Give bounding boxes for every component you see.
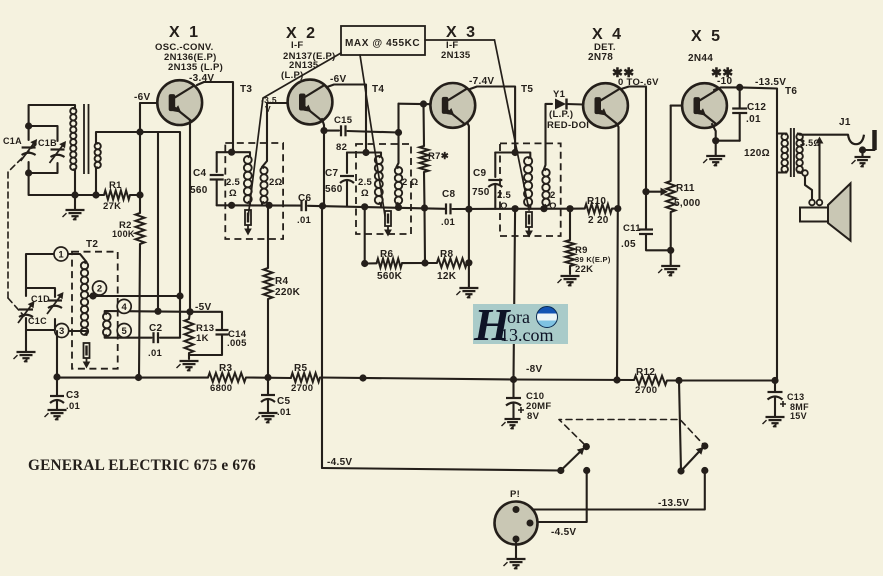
wire C7 top leg (346, 153, 348, 174)
pin 4 of T2 (117, 299, 131, 313)
svg-text:15V: 15V (790, 411, 807, 421)
svg-text:C3: C3 (66, 390, 80, 401)
svg-text:X 5: X 5 (691, 28, 723, 45)
transformer T2 secondary coil (103, 313, 111, 336)
wire R13 bottom (188, 353, 190, 359)
gang dashed line lower (8, 298, 24, 316)
wire X2 collector to T4 (327, 85, 366, 153)
switch gang dashed link (559, 420, 703, 445)
svg-text:2700: 2700 (635, 385, 657, 396)
svg-text:R1: R1 (109, 180, 122, 191)
node -5V junction (186, 308, 193, 315)
capacitor C11 (639, 228, 653, 230)
wire speaker lead right (818, 139, 820, 200)
svg-text:(L.P): (L.P) (281, 70, 304, 81)
svg-text:2N44: 2N44 (688, 53, 713, 64)
resistor R3 (208, 373, 246, 382)
variable capacitor C1A (21, 139, 37, 161)
svg-text:220K: 220K (275, 287, 301, 298)
wire C11 lower leg (646, 234, 671, 250)
svg-text:V: V (265, 104, 271, 114)
wire X3 base (399, 103, 432, 106)
wire C4 left leg (216, 152, 218, 172)
svg-text:Ω: Ω (549, 201, 557, 212)
svg-text:ora: ora (507, 307, 530, 327)
svg-text:X 1: X 1 (169, 24, 201, 41)
svg-text:2N78: 2N78 (588, 52, 613, 63)
wire R4 bottom to bus (267, 299, 269, 378)
wire T2 tap (88, 295, 180, 297)
svg-text:39 K(E.P): 39 K(E.P) (575, 255, 611, 264)
wire C1C box bottom (26, 318, 55, 330)
transformer T4 shield dashed box (356, 144, 411, 234)
junction X4 collector R10 (614, 205, 621, 212)
wire bus C10 to R12 (514, 378, 635, 381)
svg-text:.01: .01 (746, 114, 761, 125)
junction T2 tap (89, 292, 96, 299)
svg-text:-6V: -6V (330, 74, 346, 85)
svg-text:.01: .01 (66, 401, 81, 412)
svg-text:C4: C4 (193, 168, 207, 179)
junction X3 emitter rail (465, 206, 472, 213)
ground below C1C (14, 352, 36, 362)
transformer T6 primary coil (781, 134, 788, 173)
wire X1 emitter down (189, 120, 191, 312)
svg-text:R8: R8 (440, 249, 454, 260)
svg-text:R11: R11 (676, 183, 695, 194)
svg-text:1K: 1K (196, 333, 209, 344)
transformer T5 secondary coil (542, 169, 549, 206)
capacitor C3 (50, 395, 64, 397)
svg-text:2: 2 (97, 283, 102, 294)
switch S1 throw top (583, 443, 590, 450)
junction J1 ground (859, 146, 866, 153)
capacitor C10 electrolytic (506, 397, 521, 399)
junction C13 bus (771, 377, 778, 384)
svg-text:R7✱: R7✱ (428, 151, 450, 162)
ground below R9 (558, 276, 580, 286)
wire pin3 to bus (56, 331, 58, 377)
svg-text:R4: R4 (275, 276, 289, 287)
svg-text:X 3: X 3 (446, 24, 478, 41)
resistor R7 (420, 146, 429, 172)
junction X4 collector bus (613, 376, 620, 383)
ground below C13 (763, 417, 785, 427)
wire AVC rail C8 to R10 (453, 208, 571, 210)
svg-text:2700: 2700 (291, 383, 313, 394)
pin 2 of T2 (93, 281, 107, 295)
svg-text:(L.P.): (L.P.) (549, 109, 573, 120)
junction X3 collector T5 (511, 149, 518, 156)
wire R4 top (267, 205, 269, 268)
arrow switch S2 arm (696, 447, 704, 455)
svg-text:2.5: 2.5 (226, 177, 241, 188)
wire T4 secondary top (397, 104, 399, 167)
svg-text:1: 1 (58, 249, 64, 260)
pin 1 of T2 (54, 247, 68, 261)
junction R6 left (361, 260, 368, 267)
junction R6 R8 (421, 259, 428, 266)
wire R7 bottom leg (423, 172, 426, 208)
speaker cone (828, 183, 851, 240)
capacitor C9 (488, 179, 502, 181)
svg-text:-10: -10 (717, 76, 732, 87)
ground below R13 (177, 361, 199, 371)
wire X5 collector up (714, 87, 740, 90)
wire P1 bottom pin to ground (515, 543, 517, 559)
wire C7 bottom leg (346, 181, 348, 206)
capacitor C7 (340, 175, 354, 177)
svg-text:C1A: C1A (3, 136, 22, 146)
svg-text:C5: C5 (277, 396, 291, 407)
svg-text:R10: R10 (587, 196, 606, 207)
svg-text:T5: T5 (521, 84, 533, 95)
wire C13 stem (774, 381, 776, 392)
capacitor C15 (340, 125, 342, 136)
wire R10 right (612, 208, 618, 210)
svg-text:C15: C15 (334, 115, 353, 126)
ground at J1 (852, 157, 871, 167)
variable capacitor C1C (18, 301, 35, 323)
transistor X5 (682, 83, 727, 128)
svg-text:-6V: -6V (134, 92, 150, 103)
wire T1 secondary bottom (95, 168, 97, 195)
svg-text:C1C: C1C (28, 316, 47, 326)
junction R7 base (420, 100, 427, 107)
wire R11 top leg (670, 106, 672, 181)
ground below R11 (658, 266, 680, 276)
switch S2 pole (677, 467, 684, 474)
svg-text:2: 2 (550, 190, 556, 201)
wire X4 node to bus (616, 209, 619, 380)
svg-text:560: 560 (190, 185, 208, 196)
wire X2 emitter down (322, 119, 324, 206)
junction X1 collector T3 (228, 149, 235, 156)
svg-text:.01: .01 (148, 348, 163, 359)
wire C2 to X1 line (160, 296, 180, 338)
junction C1 top (25, 122, 32, 129)
capacitor C14 (216, 329, 229, 331)
ground below X5 (703, 156, 725, 166)
speaker terminal left (809, 200, 815, 206)
transistor X1 (157, 80, 202, 125)
wire T5 primary bottom (529, 206, 531, 209)
transformer T1 secondary coil (95, 143, 101, 168)
svg-text:C13: C13 (787, 392, 804, 402)
junction C11 top (642, 188, 649, 195)
svg-text:2.5: 2.5 (497, 190, 512, 201)
wire C10 stem (512, 380, 514, 398)
wire C1 trimmer box bottom (29, 162, 58, 173)
svg-text:C11: C11 (623, 223, 641, 234)
junction bias line to pin4 wire (154, 308, 161, 315)
junction base node (136, 128, 143, 135)
svg-text:12K: 12K (437, 271, 457, 282)
gang line to T4 slug (360, 55, 385, 216)
watermark Hora13.com (473, 299, 568, 350)
resistor R5 (291, 373, 320, 382)
wire -13.5V to T6 (740, 87, 777, 380)
wire T3 primary bottom (249, 203, 251, 205)
jack J1 sleeve bar (872, 130, 877, 150)
svg-text:13.com: 13.com (500, 325, 554, 345)
variable capacitor C1D (47, 292, 64, 314)
wire T4 drop to R6 (364, 207, 366, 264)
arrow speaker lead (816, 137, 824, 144)
wire C9 top leg (494, 153, 496, 178)
wire 455KC box to right (425, 39, 495, 41)
wire T4 secondary bottom (395, 204, 397, 207)
junction T4 drop rail (361, 203, 368, 210)
wire X5 emitter stem (715, 141, 717, 155)
resistor R4 (264, 268, 273, 299)
wire T6 primary bottom stub (777, 171, 787, 173)
wire AVC rail C6 to C8 (308, 206, 445, 209)
wire T5 primary drop to C10 (514, 209, 516, 380)
junction R6 line bus (359, 374, 366, 381)
resistor R6 (377, 259, 402, 268)
svg-text:I-F: I-F (291, 40, 304, 51)
terminal circle T6 secondary (802, 170, 808, 176)
transistor X4 (583, 83, 628, 128)
svg-text:2Ω: 2Ω (269, 177, 283, 188)
gang line to T3 slug (248, 53, 341, 218)
wire X4 collector down (616, 122, 619, 209)
svg-text:J1: J1 (839, 117, 851, 128)
wire C4 bottom leg (216, 180, 218, 206)
wire C13 to ground (774, 398, 776, 417)
wire T6 secondary top to J1 (798, 134, 848, 135)
wire bus R12 to C13 (667, 379, 775, 381)
speaker driver box (800, 208, 828, 222)
switch S2 throw bottom (701, 467, 708, 474)
transformer T3 primary coil (244, 156, 252, 203)
svg-text:750: 750 (472, 187, 490, 198)
wire T3 secondary bottom (261, 203, 263, 205)
junction R7 rail (421, 204, 428, 211)
transformer T3 secondary coil (260, 167, 267, 203)
transformer T5 primary coil (524, 157, 532, 206)
wire bus R5 to C10 (320, 378, 514, 380)
junction bus left end (53, 373, 60, 380)
svg-text:3: 3 (59, 326, 64, 337)
resistor R1 (104, 191, 130, 200)
svg-text:-4.5V: -4.5V (327, 457, 352, 468)
junction T3 primary rail (228, 202, 235, 209)
ground at T1 (63, 210, 85, 220)
wire X1 bias vertical (157, 132, 159, 312)
wire C14 top (190, 312, 222, 330)
arrow R11 wiper (661, 188, 669, 196)
svg-text:-7.4V: -7.4V (469, 76, 494, 87)
wire X3 emitter down (466, 120, 469, 263)
svg-text:2.5: 2.5 (358, 177, 373, 188)
resistor R8 (437, 258, 467, 267)
svg-text:T6: T6 (785, 86, 797, 97)
svg-text:C8: C8 (442, 189, 456, 200)
wire C10 to ground (512, 404, 514, 419)
pin 3 of T2 (55, 324, 69, 338)
wire bus R3 to R5 (246, 376, 291, 379)
wire T2 primary top pin1 (26, 254, 87, 288)
svg-text:-4.5V: -4.5V (551, 527, 576, 538)
svg-text:.05: .05 (621, 239, 636, 250)
wire C3 to ground (56, 401, 58, 410)
transformer T3 shield dashed box (225, 143, 283, 239)
wire T2 primary bottom pin3 (55, 331, 87, 335)
junction X5 emitter (712, 137, 719, 144)
switch S1 pole (557, 467, 564, 474)
svg-text:2 20: 2 20 (588, 215, 609, 226)
switch S1 throw bottom (583, 467, 590, 474)
variable capacitor C1B (50, 141, 67, 163)
svg-text:C2: C2 (149, 323, 163, 334)
junction T5 secondary rail (540, 205, 547, 212)
wire C1 to T1 top (29, 105, 75, 126)
diode Y1 (555, 99, 567, 110)
resistor R11 (666, 181, 675, 212)
wire -4.5V bus (322, 468, 561, 471)
resistor R10 (585, 204, 612, 213)
wire T3 secondary top to X2 base (262, 103, 288, 167)
svg-text:C9: C9 (473, 168, 487, 179)
junction C1 bottom (25, 169, 32, 176)
speaker terminal right (817, 200, 823, 206)
switch S1 arm (561, 449, 583, 471)
gang line to T5 slug (495, 40, 530, 210)
svg-text:82: 82 (336, 142, 347, 153)
wire J1 sleeve to ground (863, 149, 875, 151)
capacitor C5 (261, 394, 275, 396)
ground below C3 (45, 410, 67, 420)
transformer T4 primary coil (375, 156, 383, 204)
wire C5 to ground (267, 400, 269, 413)
wire C1 trimmer box (29, 126, 58, 141)
junction T1 primary ground (71, 191, 78, 198)
power plug P1 (495, 502, 538, 545)
transformer T4 secondary coil (395, 167, 402, 204)
transformer T2 primary coil (81, 262, 88, 335)
transformer T6 secondary coil (796, 134, 803, 173)
wire emitter to C12 (716, 140, 740, 142)
wire X2 emitter to -4.5V bus (322, 206, 324, 468)
ground below C10 (502, 419, 521, 429)
wire X4 top to bias line (621, 87, 646, 192)
switch S2 arm (681, 449, 702, 472)
svg-text:R6: R6 (380, 249, 394, 260)
svg-text:C1B: C1B (38, 138, 57, 148)
junction T4 secondary rail (395, 204, 402, 211)
wire C3 stem (56, 377, 58, 396)
P1 pin bottom (513, 536, 520, 543)
svg-text:120Ω: 120Ω (744, 148, 770, 159)
wire X5 emitter (712, 124, 716, 141)
svg-text:4: 4 (122, 302, 128, 313)
svg-text:-13.5V: -13.5V (658, 498, 689, 509)
junction T5 primary rail (511, 205, 518, 212)
wire T2 secondary top pin4 (105, 311, 190, 313)
wire R8 right to ground (467, 263, 469, 287)
wire T3 top (217, 152, 250, 156)
svg-text:R12: R12 (636, 367, 655, 378)
svg-text:C6: C6 (298, 193, 312, 204)
wire R7 to R6 junction (423, 208, 426, 263)
wire T1 primary bottom (74, 170, 76, 209)
capacitor C13 electrolytic (768, 391, 783, 393)
svg-text:T4: T4 (372, 84, 384, 95)
wire AVC rail T3 segment (217, 204, 301, 206)
svg-text:R5: R5 (294, 363, 308, 374)
svg-text:27K: 27K (103, 201, 121, 212)
wire C5 stem (267, 378, 269, 396)
svg-text:C7: C7 (325, 168, 339, 179)
svg-text:100K: 100K (112, 229, 135, 239)
wire R11 wiper arrow (646, 191, 662, 193)
junction X2 emitter rail (319, 202, 326, 209)
svg-text:.01: .01 (441, 217, 456, 228)
transformer T6 core (790, 128, 792, 177)
wire R11 bottom leg (670, 212, 672, 265)
wire T5 secondary top to Y1 (544, 104, 552, 169)
wire X3 collector to T5 (470, 87, 515, 153)
svg-text:MAX @ 455KC: MAX @ 455KC (345, 38, 420, 49)
svg-text:C12: C12 (747, 102, 766, 113)
svg-text:6800: 6800 (210, 383, 232, 394)
capacitor C12 (732, 107, 747, 109)
junction X2 collector T4 (362, 149, 369, 156)
transformer T1 core (83, 104, 85, 174)
svg-text:X 4: X 4 (592, 26, 624, 43)
wire X1 base vertical (139, 103, 141, 213)
wire T6 secondary bottom (798, 171, 801, 174)
wire R9 top (569, 209, 571, 240)
tuning slug of T4 (384, 211, 392, 237)
wire R6 left (365, 262, 377, 264)
tuning slug of T5 (525, 212, 533, 238)
junction switch drop bus (675, 377, 682, 384)
junction R1 left (92, 191, 99, 198)
svg-text:Y1: Y1 (553, 89, 566, 100)
jack J1 hook (848, 135, 864, 145)
svg-text:.01: .01 (277, 407, 292, 418)
junction R8 right (465, 259, 472, 266)
wire C1 bottom to ground rail (29, 173, 104, 195)
junction tap to X1 (176, 292, 183, 299)
junction C10 bus (510, 376, 517, 383)
svg-text:8V: 8V (527, 411, 540, 422)
wire bus to switch S2 (679, 381, 681, 472)
resistor R13 (185, 319, 194, 353)
wire X1 collector to T3 (197, 82, 233, 152)
resistor R2 (136, 213, 145, 244)
gang dashed line upper (8, 144, 36, 172)
svg-text:T3: T3 (240, 84, 252, 95)
wire R8 left (425, 262, 437, 264)
tuning slug of T3 (244, 210, 252, 236)
junction C15 branch (320, 127, 327, 134)
wire R6 right (402, 262, 425, 264)
wire R9 bottom (569, 266, 571, 274)
wire T5 secondary bottom (543, 206, 545, 209)
switch S2 throw top (701, 442, 708, 449)
wire C12 upper leg (739, 87, 741, 108)
resistor R9 (566, 240, 575, 266)
wire speaker lead left (805, 176, 812, 200)
wire T1 secondary top to node (96, 132, 180, 296)
wire C1C box (26, 288, 55, 297)
svg-text:P!: P! (510, 489, 520, 500)
wire R13 top (189, 312, 190, 319)
